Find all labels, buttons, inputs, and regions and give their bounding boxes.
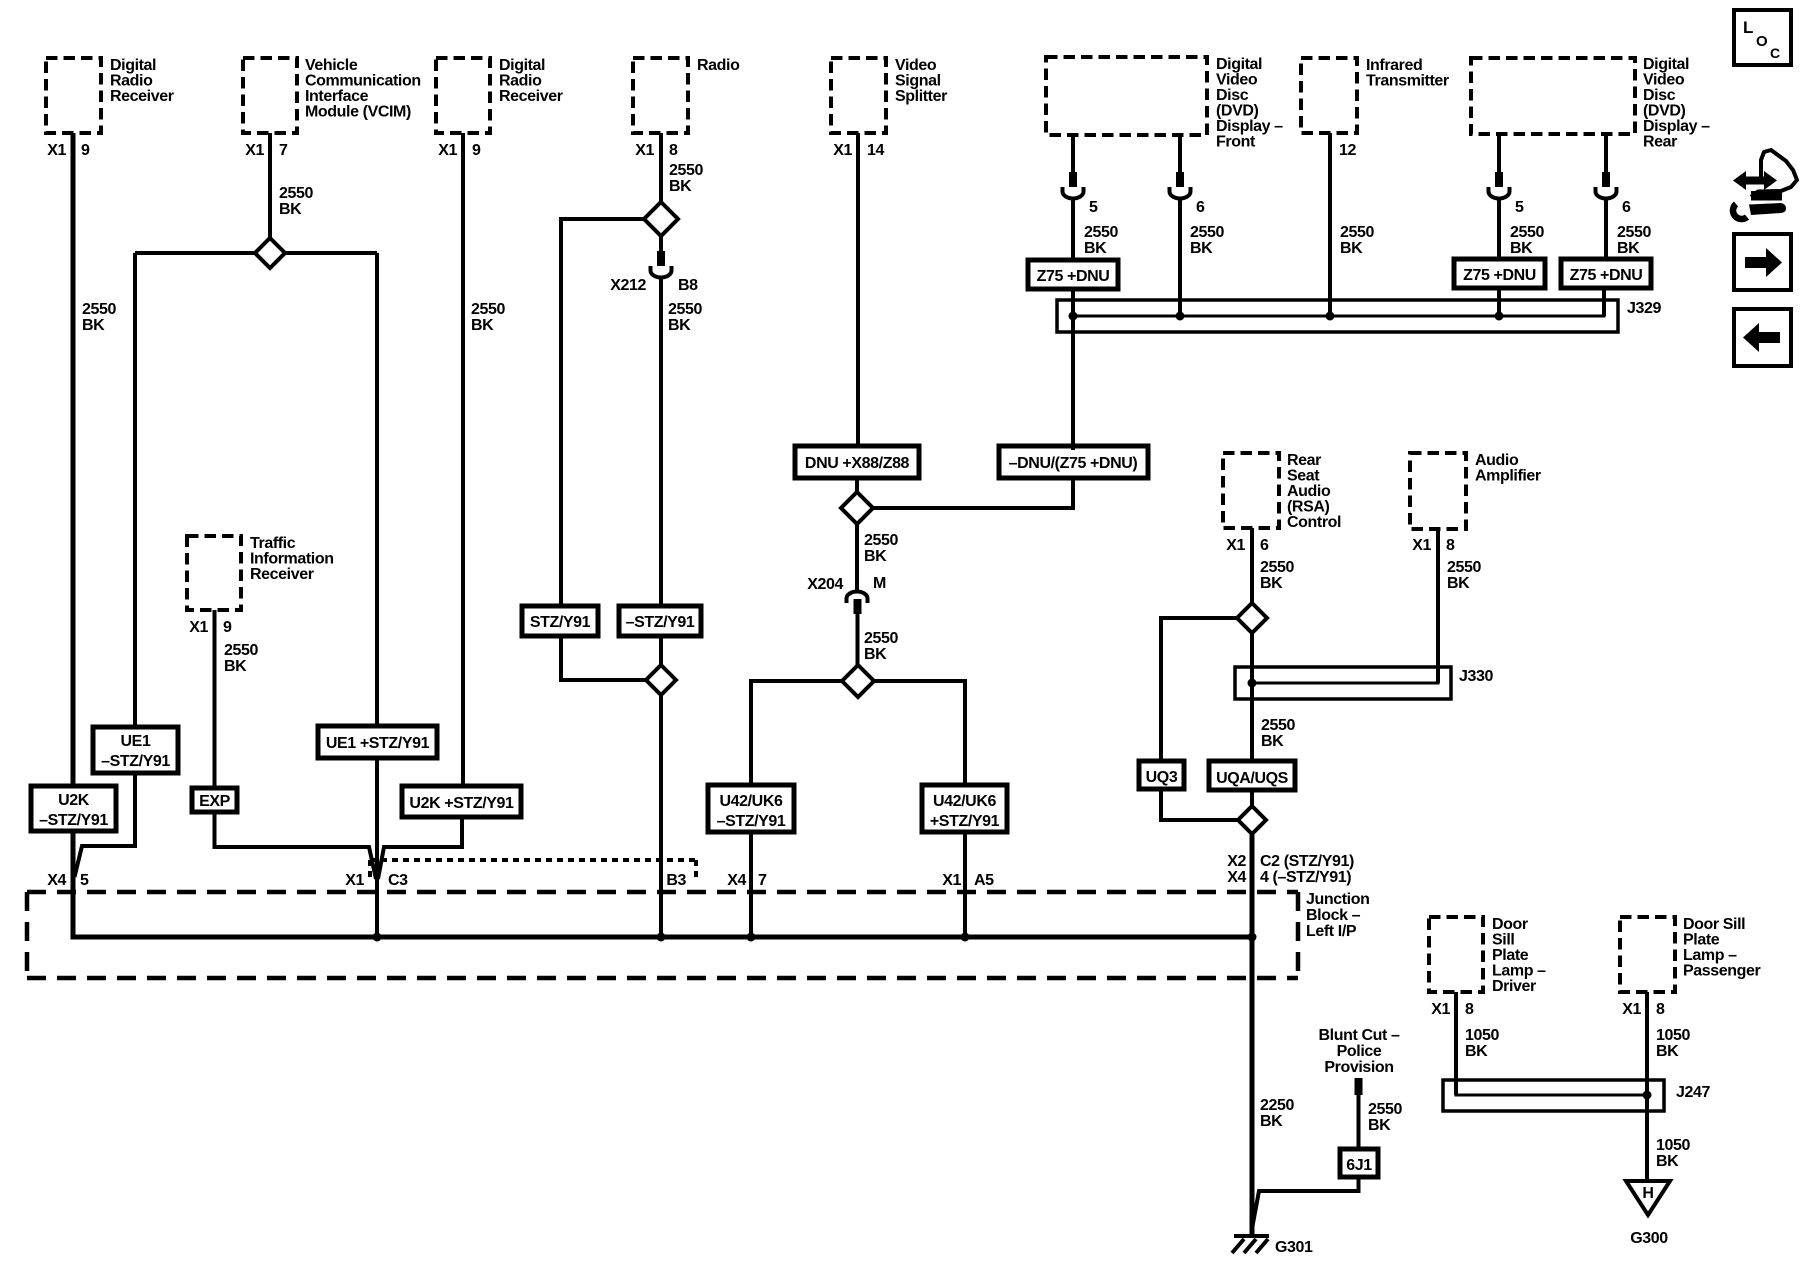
junction bus dots (373, 933, 382, 942)
wire RSA lower splice down through C2 pin junction bus to G301 (1250, 833, 1255, 1235)
component box DVD Display Front (1046, 57, 1207, 135)
svg-text:J329: J329 (1627, 300, 1661, 317)
svg-text:Police: Police (1337, 1043, 1382, 1060)
svg-text:8: 8 (669, 142, 678, 159)
net label box 6J1 (1340, 1149, 1378, 1177)
svg-text:–STZ/Y91: –STZ/Y91 (717, 813, 786, 830)
svg-text:X1: X1 (635, 142, 654, 159)
svg-text:(DVD): (DVD) (1216, 103, 1259, 120)
wire radio splice down to X212 connector (659, 233, 663, 253)
svg-text:Driver: Driver (1492, 978, 1536, 995)
svg-text:BK: BK (1260, 575, 1283, 592)
ground G300 (1626, 1181, 1670, 1215)
wire EXP down, right jog, diagonal merge to C3 pin (215, 809, 377, 879)
splice diamond on splitter wire (841, 492, 873, 524)
svg-text:7: 7 (279, 142, 288, 159)
svg-text:H: H (1642, 1185, 1653, 1202)
component box DVD Display Rear (1471, 58, 1635, 134)
component box Rear Seat Audio RSA Control (1223, 453, 1279, 528)
svg-text:Left I/P: Left I/P (1306, 923, 1357, 940)
svg-text:X4: X4 (47, 872, 66, 889)
svg-text:BK: BK (1465, 1043, 1488, 1060)
svg-text:O: O (1756, 33, 1768, 50)
svg-text:A5: A5 (974, 872, 994, 889)
svg-text:BK: BK (668, 317, 691, 334)
svg-text:+STZ/Y91: +STZ/Y91 (930, 813, 1000, 830)
svg-text:Receiver: Receiver (499, 88, 563, 105)
wire Traffic Info Receiver X1-9 down to EXP (213, 610, 217, 791)
svg-text:14: 14 (867, 142, 884, 159)
wire Infrared Transmitter pin12 down to J329 (1328, 133, 1332, 316)
svg-text:Door: Door (1492, 916, 1528, 933)
svg-text:BK: BK (1084, 240, 1107, 257)
net label box UQA/UQS (1209, 761, 1295, 790)
svg-text:(RSA): (RSA) (1287, 499, 1330, 516)
svg-text:Digital: Digital (499, 57, 545, 74)
svg-text:Disc: Disc (1216, 87, 1249, 104)
svg-text:Module (VCIM): Module (VCIM) (305, 104, 411, 121)
svg-text:2550: 2550 (864, 532, 898, 549)
service icon bottom bar (1751, 191, 1782, 201)
svg-text:X1: X1 (1226, 537, 1245, 554)
svg-text:Plate: Plate (1492, 947, 1529, 964)
service icon hand outline (1751, 150, 1797, 197)
wire RSA splice left branch to UQ3 (1161, 618, 1238, 764)
svg-text:X1: X1 (189, 619, 208, 636)
svg-text:6J1: 6J1 (1346, 1157, 1372, 1174)
svg-text:Block –: Block – (1306, 907, 1361, 924)
X212 connector female cup (651, 266, 672, 278)
svg-text:BK: BK (1447, 575, 1470, 592)
svg-text:BK: BK (1617, 240, 1640, 257)
svg-text:X1: X1 (245, 142, 264, 159)
wire U2K box to junction bus corner then bus to right (73, 825, 1252, 937)
component box Infrared Transmitter (1301, 58, 1357, 133)
svg-text:–STZ/Y91: –STZ/Y91 (101, 753, 170, 770)
svg-text:2550: 2550 (864, 630, 898, 647)
svg-text:2550: 2550 (471, 301, 505, 318)
svg-text:BK: BK (669, 178, 692, 195)
wire DNU box down to splice (855, 474, 859, 495)
svg-text:Information: Information (250, 551, 334, 568)
svg-text:Blunt Cut –: Blunt Cut – (1319, 1027, 1400, 1044)
svg-text:2550: 2550 (82, 301, 116, 318)
svg-text:BK: BK (864, 646, 887, 663)
svg-text:BK: BK (82, 317, 105, 334)
svg-text:(DVD): (DVD) (1643, 103, 1686, 120)
svg-text:Infrared: Infrared (1366, 57, 1422, 74)
wire right branch to UE1 +STZ/Y91 (375, 253, 379, 730)
svg-text:9: 9 (223, 619, 232, 636)
svg-text:Passenger: Passenger (1683, 963, 1761, 980)
svg-text:BK: BK (471, 317, 494, 334)
svg-text:X1: X1 (345, 872, 364, 889)
svg-text:C: C (1770, 45, 1780, 61)
wire Radio X1-8 down to splice diamond (659, 133, 663, 205)
svg-text:Video: Video (895, 57, 937, 74)
wire left branch to UE1 -STZ/Y91 (133, 253, 137, 730)
svg-text:2550: 2550 (669, 162, 703, 179)
junction block left dashed edge (25, 892, 30, 978)
svg-text:8: 8 (1656, 1001, 1665, 1018)
svg-text:Disc: Disc (1643, 87, 1676, 104)
svg-text:Audio: Audio (1475, 452, 1519, 469)
svg-text:BK: BK (1260, 1113, 1283, 1130)
svg-text:–STZ/Y91: –STZ/Y91 (626, 614, 695, 631)
junction block C3 dotted notch (370, 858, 696, 862)
svg-text:Z75 +DNU: Z75 +DNU (1463, 267, 1536, 284)
splice pack J247 (1443, 1080, 1664, 1111)
svg-text:X204: X204 (807, 576, 843, 593)
svg-text:Signal: Signal (895, 73, 941, 90)
wire lower splice left branch to U42/UK6 -STZ/Y91 (751, 681, 843, 789)
svg-text:Receiver: Receiver (250, 566, 314, 583)
svg-text:G301: G301 (1275, 1239, 1313, 1256)
net label box Z75 +DNU rear driver (1454, 259, 1545, 288)
svg-text:2550: 2550 (1190, 224, 1224, 241)
svg-text:U42/UK6: U42/UK6 (933, 793, 997, 810)
net label box U42/UK6 -STZ/Y91 (708, 785, 794, 832)
svg-text:12: 12 (1339, 142, 1356, 159)
svg-text:C2 (STZ/Y91): C2 (STZ/Y91) (1260, 853, 1354, 870)
svg-text:6: 6 (1260, 537, 1269, 554)
svg-text:BK: BK (1340, 240, 1363, 257)
svg-text:Splitter: Splitter (895, 88, 947, 105)
svg-text:X212: X212 (610, 277, 646, 294)
svg-text:Interface: Interface (305, 88, 369, 105)
svg-text:Video: Video (1643, 72, 1685, 89)
component box Door Sill Plate Lamp Driver (1429, 917, 1483, 992)
svg-text:STZ/Y91: STZ/Y91 (530, 614, 591, 631)
svg-text:2550: 2550 (668, 301, 702, 318)
net label box -DNU/(Z75 +DNU) (999, 446, 1148, 478)
X212 connector male tick (657, 251, 665, 266)
svg-text:X1: X1 (942, 872, 961, 889)
net label box DNU +X88/Z88 (795, 446, 919, 478)
wire DVD rear pin5 down through Z75 +DNU to J329 (1497, 134, 1501, 172)
svg-text:2550: 2550 (279, 185, 313, 202)
wire DVD front pin5 down through Z75 +DNU and J329 to -DNU box (1071, 135, 1075, 172)
svg-text:Front: Front (1216, 134, 1256, 151)
svg-text:Digital: Digital (110, 57, 156, 74)
svg-text:2550: 2550 (1447, 559, 1481, 576)
splice diamond on Radio wire (644, 202, 678, 236)
ground G301 (1234, 1234, 1269, 1238)
svg-text:BK: BK (1190, 240, 1213, 257)
svg-text:Transmitter: Transmitter (1366, 73, 1449, 90)
component box Door Sill Plate Lamp Passenger (1620, 917, 1675, 992)
svg-text:Traffic: Traffic (250, 535, 296, 552)
splice diamond splitter lower (842, 665, 874, 697)
wire RSA Control X1-6 down to upper splice (1250, 528, 1254, 604)
svg-text:2550: 2550 (1368, 1101, 1402, 1118)
svg-text:X1: X1 (1431, 1001, 1450, 1018)
svg-text:9: 9 (81, 142, 90, 159)
svg-text:2550: 2550 (1260, 559, 1294, 576)
svg-text:BK: BK (279, 201, 302, 218)
svg-text:Vehicle: Vehicle (305, 57, 358, 74)
svg-text:Provision: Provision (1324, 1059, 1393, 1076)
svg-text:X1: X1 (1622, 1001, 1641, 1018)
svg-text:Lamp –: Lamp – (1492, 963, 1546, 980)
svg-text:5: 5 (1515, 199, 1524, 216)
wire RSA main down through J330 and UQA/UQS to lower splice (1250, 632, 1254, 807)
LOC legend box (1734, 10, 1791, 65)
wire Door Sill Driver X1-8 down into J247 (1454, 992, 1458, 1095)
svg-text:–STZ/Y91: –STZ/Y91 (39, 812, 108, 829)
svg-text:Radio: Radio (110, 73, 153, 90)
net label box UE1 -STZ/Y91 (93, 727, 178, 773)
svg-text:C3: C3 (388, 872, 408, 889)
svg-text:7: 7 (758, 872, 767, 889)
svg-text:Sill: Sill (1492, 932, 1514, 949)
wire lower splice right branch to U42/UK6 +STZ/Y91 (872, 681, 965, 789)
svg-text:Radio: Radio (499, 73, 542, 90)
svg-text:BK: BK (1656, 1153, 1679, 1170)
svg-text:BK: BK (1368, 1117, 1391, 1134)
net label box Z75 +DNU rear passenger (1561, 259, 1651, 288)
svg-text:J330: J330 (1459, 668, 1493, 685)
net label box -STZ/Y91 (619, 606, 701, 636)
svg-text:2550: 2550 (1617, 224, 1651, 241)
svg-text:X4: X4 (1227, 869, 1246, 886)
svg-text:Radio: Radio (697, 57, 740, 74)
svg-text:Junction: Junction (1306, 891, 1369, 908)
svg-text:B3: B3 (666, 872, 686, 889)
net label box U2K +STZ/Y91 (402, 786, 521, 817)
svg-text:Receiver: Receiver (110, 88, 174, 105)
svg-text:8: 8 (1446, 537, 1455, 554)
wire Digital Radio Receiver 2 X1-9 down to U2K +STZ/Y91 (461, 133, 465, 790)
junction block bottom dashed boundary (27, 976, 1298, 981)
svg-text:EXP: EXP (199, 793, 231, 810)
junction block right dashed edge (1296, 892, 1301, 978)
svg-text:X1: X1 (833, 142, 852, 159)
svg-text:2550: 2550 (1261, 717, 1295, 734)
service icon wrench head (1733, 204, 1747, 219)
svg-text:BK: BK (864, 548, 887, 565)
svg-text:Audio: Audio (1287, 483, 1331, 500)
wire splice right branch to -DNU/(Z75 +DNU) box (871, 474, 1073, 508)
net label box UQ3 (1139, 761, 1184, 789)
nav arrow box right (1734, 234, 1791, 290)
svg-text:1050: 1050 (1656, 1027, 1690, 1044)
svg-text:2550: 2550 (1084, 224, 1118, 241)
svg-text:BK: BK (1510, 240, 1533, 257)
svg-text:2550: 2550 (1510, 224, 1544, 241)
svg-text:2550: 2550 (224, 642, 258, 659)
svg-text:UQ3: UQ3 (1146, 769, 1178, 786)
wire VCIM X1-7 down to splice (268, 133, 272, 240)
wire UQ3 down then right to lower splice (1161, 786, 1239, 820)
svg-text:1050: 1050 (1465, 1027, 1499, 1044)
component box Traffic Information Receiver (187, 536, 241, 610)
svg-text:X2: X2 (1227, 853, 1246, 870)
svg-text:9: 9 (472, 142, 481, 159)
svg-text:Digital: Digital (1643, 56, 1689, 73)
svg-text:Z75 +DNU: Z75 +DNU (1037, 268, 1110, 285)
wire X204 down to lower splice (856, 613, 860, 668)
svg-text:Plate: Plate (1683, 932, 1720, 949)
wire radio lower splice down through B3 pin to junction bus (659, 694, 663, 937)
svg-text:U42/UK6: U42/UK6 (719, 793, 783, 810)
svg-text:Control: Control (1287, 514, 1341, 531)
svg-text:Door Sill: Door Sill (1683, 916, 1745, 933)
wire UE1 -STZ/Y91 down, left jog, diagonal merge to X4-5 pin (75, 770, 136, 877)
svg-text:6: 6 (1196, 199, 1205, 216)
svg-text:5: 5 (80, 872, 89, 889)
wire Video Signal Splitter X1-14 down to DNU box (856, 133, 860, 450)
svg-text:BK: BK (1261, 733, 1284, 750)
wire UE1 +STZ/Y91 down through C3 pin to junction bus (375, 755, 379, 937)
component box Digital Radio Receiver 1 (46, 58, 101, 133)
svg-text:G300: G300 (1630, 1230, 1668, 1247)
wire 6J1 down left to ground wire (1253, 1177, 1359, 1226)
svg-text:8: 8 (1465, 1001, 1474, 1018)
net label box EXP (192, 788, 237, 812)
svg-text:Display –: Display – (1643, 118, 1710, 135)
svg-text:Rear: Rear (1643, 134, 1677, 151)
svg-text:2250: 2250 (1260, 1097, 1294, 1114)
svg-text:BK: BK (224, 658, 247, 675)
svg-text:U2K: U2K (58, 792, 90, 809)
svg-text:Digital: Digital (1216, 56, 1262, 73)
wire splice down to X204 connector (855, 521, 859, 592)
svg-text:4 (–STZ/Y91): 4 (–STZ/Y91) (1260, 869, 1351, 886)
svg-text:X1: X1 (1412, 537, 1431, 554)
svg-text:X4: X4 (727, 872, 746, 889)
wire U42/UK6 +STZ/Y91 down through X1-A5 pin to junction bus (963, 828, 967, 937)
wire Audio Amplifier X1-8 down into J330 (1436, 529, 1440, 683)
service icon double arrow (1733, 171, 1777, 190)
wire radio splice left branch loop with STZ/Y91 box (561, 219, 647, 680)
wire U2K +STZ/Y91 down, left jog, diagonal merge to C3 pin (378, 814, 462, 879)
wire DVD front pin6 down to J329 (1178, 135, 1182, 172)
wire splice horizontal UE1 branch (135, 251, 377, 255)
svg-text:J247: J247 (1676, 1084, 1710, 1101)
svg-text:Lamp –: Lamp – (1683, 947, 1737, 964)
svg-text:UE1 +STZ/Y91: UE1 +STZ/Y91 (326, 735, 430, 752)
svg-text:1050: 1050 (1656, 1137, 1690, 1154)
svg-text:X1: X1 (47, 142, 66, 159)
component box VCIM (243, 58, 297, 133)
net label box UE1 +STZ/Y91 (318, 726, 437, 758)
component box Digital Radio Receiver 2 (436, 58, 490, 133)
svg-text:Seat: Seat (1287, 468, 1320, 485)
svg-text:UE1: UE1 (121, 733, 151, 750)
net label box U42/UK6 +STZ/Y91 (922, 785, 1007, 832)
svg-text:B8: B8 (678, 277, 698, 294)
X204 connector female cup (847, 592, 868, 603)
svg-text:U2K +STZ/Y91: U2K +STZ/Y91 (409, 795, 514, 812)
svg-text:BK: BK (1656, 1043, 1679, 1060)
svg-text:L: L (1743, 18, 1753, 37)
svg-text:X1: X1 (438, 142, 457, 159)
splice pack J330 (1235, 667, 1451, 699)
splice diamond RSA lower (1238, 806, 1266, 834)
svg-text:Display –: Display – (1216, 118, 1283, 135)
splice diamond on VCIM wire (255, 238, 285, 268)
splice pack J329 (1057, 300, 1618, 332)
svg-text:Z75 +DNU: Z75 +DNU (1570, 267, 1643, 284)
wire blunt cut down to 6J1 (1357, 1095, 1361, 1152)
svg-text:Rear: Rear (1287, 452, 1321, 469)
blunt cut wire stub (1355, 1078, 1363, 1095)
svg-text:M: M (873, 575, 886, 592)
wire Door Sill Passenger X1-8 down through J247 to G300 (1645, 992, 1649, 1181)
svg-text:5: 5 (1089, 199, 1098, 216)
net label box STZ/Y91 (522, 606, 598, 636)
service icon wrench handle (1749, 203, 1786, 215)
wire DVD rear pin6 down through Z75 +DNU to J329 (1604, 134, 1608, 172)
svg-text:DNU +X88/Z88: DNU +X88/Z88 (805, 455, 910, 472)
svg-text:Amplifier: Amplifier (1475, 468, 1541, 485)
svg-text:6: 6 (1622, 199, 1631, 216)
svg-text:UQA/UQS: UQA/UQS (1216, 770, 1289, 787)
nav arrow box left (1734, 309, 1791, 366)
net label box Z75 +DNU front (1028, 260, 1118, 289)
splice diamond RSA upper (1237, 603, 1267, 633)
svg-text:–DNU/(Z75 +DNU): –DNU/(Z75 +DNU) (1009, 455, 1138, 472)
component box Audio Amplifier (1410, 453, 1466, 529)
component box Radio (633, 58, 688, 133)
wire X212 down through -STZ/Y91 box to lower splice (659, 277, 663, 667)
svg-text:Communication: Communication (305, 73, 421, 90)
junction block top dashed boundary (27, 890, 1298, 895)
wire U42/UK6 -STZ/Y91 down through X4-7 pin to junction bus (749, 828, 753, 937)
wire from Digital Radio Receiver 1 X1-9 down to U2K box (71, 133, 76, 790)
svg-text:Video: Video (1216, 72, 1258, 89)
splice diamond radio lower (646, 665, 676, 695)
component box Video Signal Splitter (831, 58, 886, 133)
svg-text:2550: 2550 (1340, 224, 1374, 241)
X204 connector male tick (854, 599, 862, 614)
net label box U2K -STZ/Y91 (31, 786, 116, 831)
